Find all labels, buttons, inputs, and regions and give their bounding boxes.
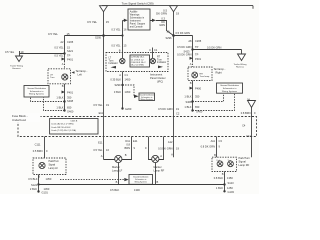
svg-text:B: B <box>38 174 40 178</box>
svg-text:Trailer Wiring: Trailer Wiring <box>234 63 248 66</box>
svg-text:Left: Left <box>78 72 83 76</box>
svg-text:0.3 YEL: 0.3 YEL <box>111 27 121 31</box>
svg-text:Harness: Harness <box>12 67 21 70</box>
svg-text:S123: S123 <box>228 181 235 185</box>
svg-text:A11: A11 <box>211 139 216 143</box>
svg-text:0.5 BRN: 0.5 BRN <box>33 149 43 153</box>
svg-text:16: 16 <box>124 27 127 31</box>
svg-text:A12: A12 <box>168 140 173 144</box>
svg-text:1450: 1450 <box>44 187 50 191</box>
svg-text:0.5 DK GRN: 0.5 DK GRN <box>158 146 173 150</box>
svg-text:0.8 DK GRN: 0.8 DK GRN <box>201 145 216 149</box>
svg-text:F11: F11 <box>247 134 252 138</box>
svg-text:G400: G400 <box>196 110 203 114</box>
svg-text:C1: C1 <box>154 48 158 52</box>
svg-text:Signal: Signal <box>239 159 247 163</box>
svg-text:0.35 BLK: 0.35 BLK <box>110 77 121 81</box>
svg-text:B: B <box>157 180 159 184</box>
svg-text:0.5 DK GRN: 0.5 DK GRN <box>207 46 222 50</box>
svg-text:0.5 DK GRN: 0.5 DK GRN <box>177 53 192 57</box>
svg-text:Instrument: Instrument <box>150 72 163 76</box>
svg-text:C2: C2 <box>176 111 180 115</box>
svg-text:Lamp LF: Lamp LF <box>49 167 59 170</box>
svg-text:C: C <box>149 48 151 52</box>
svg-text:58+2 (1 GRN): 58+2 (1 GRN) <box>131 65 144 67</box>
svg-text:Trailer Wiring: Trailer Wiring <box>10 64 24 67</box>
svg-text:DK GRN: DK GRN <box>156 11 167 15</box>
svg-text:A: A <box>62 62 64 66</box>
svg-text:C205: C205 <box>67 40 74 44</box>
svg-text:Wiring Systems: Wiring Systems <box>140 98 153 101</box>
svg-text:GRN: GRN <box>159 23 165 27</box>
svg-text:A: A <box>119 73 121 77</box>
svg-text:S299: S299 <box>114 83 121 87</box>
svg-text:S295: S295 <box>95 36 102 40</box>
svg-text:S421: S421 <box>67 49 74 53</box>
svg-text:0.8 BLK: 0.8 BLK <box>214 176 223 180</box>
svg-text:1 BLK: 1 BLK <box>216 186 223 190</box>
svg-text:B: B <box>214 153 216 157</box>
svg-text:Wiring Systems: Wiring Systems <box>134 180 147 183</box>
svg-text:Indicator: Indicator <box>157 61 166 64</box>
svg-text:0.5 BLK: 0.5 BLK <box>110 188 119 192</box>
svg-text:C005 B: C005 B <box>70 120 78 122</box>
svg-text:P401: P401 <box>195 57 202 61</box>
svg-text:Wiring Systems: Wiring Systems <box>29 93 45 96</box>
svg-text:P401: P401 <box>67 57 74 61</box>
svg-text:0.5 YEL: 0.5 YEL <box>5 50 15 54</box>
svg-text:9: 9 <box>254 111 256 115</box>
svg-text:D11: D11 <box>125 139 130 143</box>
svg-text:Indicator: Indicator <box>109 62 118 65</box>
svg-text:1350: 1350 <box>227 176 233 180</box>
svg-text:15: 15 <box>67 32 71 36</box>
svg-text:Panel Cluster: Panel Cluster <box>150 76 166 80</box>
svg-text:19: 19 <box>176 12 180 16</box>
svg-text:Turn lamp: Turn lamp <box>200 75 211 78</box>
svg-text:Park: Park <box>217 160 221 162</box>
svg-text:350: 350 <box>67 95 72 99</box>
svg-text:Warnings: Warnings <box>130 13 140 16</box>
svg-text:9: 9 <box>46 149 48 153</box>
svg-text:0.5 YEL: 0.5 YEL <box>93 103 103 107</box>
svg-text:B: B <box>222 172 224 176</box>
svg-text:9: 9 <box>134 146 136 150</box>
svg-text:Harness: Harness <box>236 66 245 69</box>
svg-text:C111: C111 <box>35 142 41 146</box>
svg-text:Cronk (7 OR) 58+2 (1.25A): Cronk (7 OR) 58+2 (1.25A) <box>51 129 76 132</box>
svg-text:1350: 1350 <box>46 177 52 181</box>
svg-text:15: 15 <box>106 20 110 24</box>
svg-text:Ground Distribution: Ground Distribution <box>27 87 47 90</box>
svg-text:650: 650 <box>195 105 200 109</box>
svg-text:G200: G200 <box>125 107 132 111</box>
svg-text:and Console: and Console <box>130 26 144 28</box>
svg-text:A: A <box>41 156 43 160</box>
svg-text:C205: C205 <box>195 39 202 43</box>
svg-text:Cronk 58F 58+4 BLK: Cronk 58F 58+4 BLK <box>51 126 71 129</box>
svg-text:A: A <box>190 62 192 66</box>
svg-text:TP: TP <box>195 53 199 57</box>
svg-text:G101: G101 <box>42 191 49 195</box>
svg-text:E11: E11 <box>98 141 103 145</box>
svg-text:S408: S408 <box>67 99 74 103</box>
svg-text:Lamp RF: Lamp RF <box>154 169 165 173</box>
svg-text:0.5 YEL: 0.5 YEL <box>48 32 58 36</box>
svg-text:650: 650 <box>67 105 72 109</box>
svg-text:0.5 YEL: 0.5 YEL <box>93 148 103 152</box>
svg-text:Lamp LF: Lamp LF <box>112 169 123 173</box>
svg-text:Lamp RF: Lamp RF <box>239 163 250 167</box>
svg-text:B: B <box>119 48 121 52</box>
svg-text:E11: E11 <box>99 111 104 115</box>
svg-text:E11: E11 <box>133 139 138 143</box>
svg-text:B: B <box>125 153 127 157</box>
svg-text:Turn: Turn <box>50 76 55 79</box>
svg-text:15: 15 <box>124 43 127 47</box>
svg-text:Ground Distribution: Ground Distribution <box>220 84 240 87</box>
svg-text:0.5 DK GRN: 0.5 DK GRN <box>158 107 173 111</box>
svg-text:0.8: 0.8 <box>126 142 130 146</box>
svg-text:G400: G400 <box>67 109 74 113</box>
svg-text:TP: TP <box>195 45 199 49</box>
svg-text:Turn Signal Switch (C99): Turn Signal Switch (C99) <box>122 1 154 5</box>
svg-text:C3: C3 <box>219 139 223 143</box>
svg-text:A: A <box>171 153 173 157</box>
svg-text:350: 350 <box>195 95 200 99</box>
svg-text:0.5 YEL: 0.5 YEL <box>54 53 64 57</box>
svg-text:B: B <box>116 180 118 184</box>
svg-text:RH: RH <box>200 73 204 75</box>
svg-text:S408: S408 <box>185 100 192 104</box>
svg-text:P400: P400 <box>195 87 202 91</box>
svg-text:2 BLK: 2 BLK <box>30 187 37 191</box>
svg-text:B: B <box>62 84 64 88</box>
svg-text:S296: S296 <box>165 36 172 40</box>
svg-text:BRN: BRN <box>125 146 131 150</box>
svg-text:A: A <box>101 154 103 158</box>
svg-text:LH: LH <box>50 75 53 77</box>
svg-text:Schematics in: Schematics in <box>30 90 44 93</box>
svg-text:Underhood: Underhood <box>12 118 26 122</box>
svg-text:0.5 DK GRN: 0.5 DK GRN <box>177 45 192 49</box>
svg-text:Park/Turn: Park/Turn <box>239 156 251 160</box>
svg-text:0.5 YEL: 0.5 YEL <box>111 43 121 47</box>
svg-text:A2: A2 <box>60 40 64 44</box>
svg-text:0.8 BRN: 0.8 BRN <box>241 111 251 115</box>
svg-text:19: 19 <box>176 146 179 150</box>
svg-text:Wiring Systems: Wiring Systems <box>222 90 238 93</box>
svg-text:P401: P401 <box>67 90 74 94</box>
svg-text:1450: 1450 <box>125 90 131 94</box>
svg-text:Panel, Gauges: Panel, Gauges <box>130 23 146 25</box>
svg-text:15: 15 <box>67 46 70 50</box>
svg-text:Marker: Marker <box>112 165 120 169</box>
svg-text:Tail lamp -: Tail lamp - <box>214 67 226 71</box>
svg-text:Schematics in: Schematics in <box>130 16 145 19</box>
svg-text:S124: S124 <box>31 183 38 187</box>
svg-text:Instrument: Instrument <box>130 19 141 22</box>
svg-text:1 BLK: 1 BLK <box>184 105 191 109</box>
svg-text:Turn: Turn <box>228 160 232 162</box>
svg-text:C1: C1 <box>125 73 129 77</box>
svg-text:19: 19 <box>106 103 109 107</box>
svg-text:0.5 YEL: 0.5 YEL <box>87 20 97 24</box>
svg-text:Audible: Audible <box>130 10 138 13</box>
svg-text:1250: 1250 <box>227 186 233 190</box>
svg-text:Cronk (B) 58+1 (7 GRN): Cronk (B) 58+1 (7 GRN) <box>51 123 74 126</box>
svg-text:1 BLK: 1 BLK <box>56 105 63 109</box>
svg-text:1300: 1300 <box>134 188 140 192</box>
svg-text:0.5 DK GRN: 0.5 DK GRN <box>176 31 191 35</box>
svg-text:3 BLK: 3 BLK <box>114 90 121 94</box>
svg-text:19: 19 <box>176 107 179 111</box>
svg-text:0.5 YEL: 0.5 YEL <box>54 46 64 50</box>
svg-text:A8: A8 <box>188 39 192 43</box>
svg-text:9: 9 <box>219 145 221 149</box>
svg-text:Right: Right <box>216 71 222 75</box>
svg-text:G103: G103 <box>228 190 235 194</box>
svg-text:1 BLK: 1 BLK <box>56 95 63 99</box>
svg-text:Schematics in: Schematics in <box>223 87 237 90</box>
svg-text:Marker: Marker <box>154 165 162 169</box>
svg-text:A: A <box>160 154 162 158</box>
svg-text:1 BLK: 1 BLK <box>184 95 191 99</box>
svg-text:9: 9 <box>145 146 147 150</box>
svg-text:1450: 1450 <box>125 77 131 81</box>
svg-text:B: B <box>190 81 192 85</box>
svg-text:(IPC): (IPC) <box>157 79 163 83</box>
svg-text:TP: TP <box>67 53 71 57</box>
svg-text:C4: C4 <box>242 123 246 127</box>
svg-text:0.5 BLK: 0.5 BLK <box>28 177 37 181</box>
svg-text:16: 16 <box>106 148 109 152</box>
